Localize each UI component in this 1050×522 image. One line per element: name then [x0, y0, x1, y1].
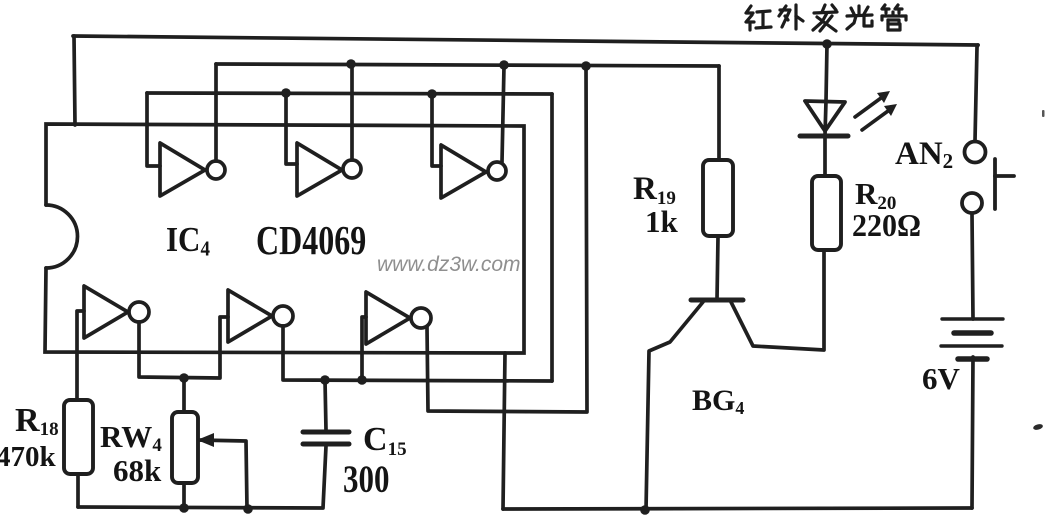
node RW4 top junction	[179, 373, 189, 383]
resistor R18 body	[64, 400, 93, 474]
watermark www.dz3w.com	[377, 253, 521, 276]
label 68k	[113, 453, 162, 488]
transistor BG4 base bar	[691, 298, 743, 303]
wire inverter5 output run	[283, 326, 552, 381]
svg-text:C15: C15	[363, 421, 407, 460]
inverter gate 2	[297, 143, 361, 196]
svg-text:1k: 1k	[645, 204, 679, 239]
wire bottom right ground run	[503, 508, 972, 509]
battery B1 plates	[941, 319, 1003, 359]
inverter gate 3	[441, 145, 506, 198]
wire collector run to R20	[731, 250, 824, 350]
wire line3 right drop	[550, 94, 554, 381]
label 1k	[645, 204, 679, 239]
resistor R19 body	[703, 160, 733, 236]
inverter gate 4	[84, 286, 149, 338]
label R19	[633, 171, 676, 209]
potentiometer RW4 wiper arrowhead	[197, 433, 214, 447]
inverter gate 6	[366, 292, 431, 344]
wire emitter run to ground	[646, 302, 703, 510]
wire bottom left ground run	[78, 446, 326, 508]
svg-text:220Ω: 220Ω	[852, 208, 921, 243]
wire R18 bottom lead	[76, 474, 80, 507]
svg-text:300: 300	[343, 458, 389, 501]
wire inverter4 input / R18 top lead	[77, 311, 84, 400]
wire top supply line	[73, 36, 978, 45]
wire feedback line2	[216, 64, 719, 66]
wire LED anode lead	[825, 44, 827, 135]
LED D1 cathode bar	[800, 134, 848, 139]
node C15 top junction	[320, 375, 330, 385]
node inverter3 input on line3	[427, 89, 437, 99]
node line2 to inverter6 output	[581, 61, 591, 71]
wire feedback line3	[147, 93, 552, 94]
IC U1 CD4069 package outline	[45, 124, 524, 353]
capacitor C15 plates	[303, 432, 349, 444]
label R18	[15, 402, 59, 440]
wire switch to battery lead	[972, 214, 973, 319]
wire inverter6 output to line2 riser	[427, 66, 587, 412]
svg-text:IC4: IC4	[166, 221, 210, 260]
label 470k	[0, 441, 57, 473]
wire RW4 top lead	[182, 378, 186, 412]
label BG4	[692, 384, 744, 418]
wire C15 top lead	[325, 380, 326, 430]
label 6V	[922, 361, 961, 396]
svg-text:CD4069: CD4069	[256, 218, 366, 264]
label CD4069	[256, 218, 366, 264]
potentiometer RW4 body	[172, 412, 198, 483]
pushbutton AN2 terminal 2	[962, 193, 982, 213]
inverter gate 5	[228, 290, 293, 342]
label 300	[343, 458, 389, 501]
pushbutton AN2 terminal 1	[965, 142, 986, 163]
LED emission arrow 1	[855, 91, 890, 117]
LED emission arrow 2	[862, 104, 897, 130]
svg-text:470k: 470k	[0, 441, 57, 473]
label RW4	[100, 419, 162, 456]
svg-text:AN2: AN2	[895, 136, 953, 173]
label 红外发光管 infrared LED (drawn strokes)	[746, 5, 906, 31]
wire inverter2 output riser	[350, 64, 354, 160]
label R20	[855, 176, 896, 214]
label C15	[363, 421, 407, 460]
svg-text:6V: 6V	[922, 361, 961, 396]
scan speck artifact top right	[1042, 110, 1045, 117]
node inverter6 input junction	[357, 375, 367, 385]
scan speck artifact right edge	[1032, 423, 1043, 431]
wire VDD pin drop to IC	[74, 36, 75, 125]
wire inverter3 output riser	[502, 66, 504, 162]
wire inverter1 output riser	[214, 64, 218, 161]
node emitter on ground	[640, 505, 650, 515]
wire switch top lead	[975, 45, 978, 141]
wire inverter4 output to inverter5 input	[139, 317, 228, 378]
inverter gate 1	[160, 143, 225, 196]
wire R19 bottom lead to base	[717, 237, 718, 300]
node inverter2 output on line2	[346, 59, 356, 69]
wire IC ground pin	[503, 353, 505, 509]
wire inverter3 input drop	[432, 94, 441, 166]
wire RW4 bottom lead	[182, 483, 186, 508]
node LED branch on top line	[822, 39, 832, 49]
wire LED cathode to R20 lead	[823, 137, 827, 176]
label 220 ohm	[852, 208, 921, 243]
wire RW4 wiper return	[197, 440, 247, 509]
node RW4 bottom on ground	[179, 503, 189, 513]
pushbutton AN2 actuator bar	[995, 159, 1014, 209]
wire inverter1 input drop	[147, 93, 160, 166]
wire inverter6 input drop	[362, 317, 366, 380]
wire battery bottom lead	[972, 357, 973, 508]
svg-text:www.dz3w.com: www.dz3w.com	[377, 253, 521, 276]
svg-text:BG4: BG4	[692, 384, 744, 418]
node inverter3 output on line2	[499, 60, 509, 70]
wire line2 drop to R19	[717, 66, 721, 161]
node wiper return on ground	[243, 504, 253, 514]
svg-text:R18: R18	[15, 402, 59, 440]
wire inverter2 input drop	[286, 93, 297, 164]
svg-text:68k: 68k	[113, 453, 162, 488]
label AN2	[895, 136, 953, 173]
LED D1 triangle	[805, 101, 845, 131]
resistor R20 body	[812, 176, 841, 250]
label IC4	[166, 221, 210, 260]
svg-text:RW4: RW4	[100, 419, 162, 456]
node inverter2 input on line3	[281, 88, 291, 98]
